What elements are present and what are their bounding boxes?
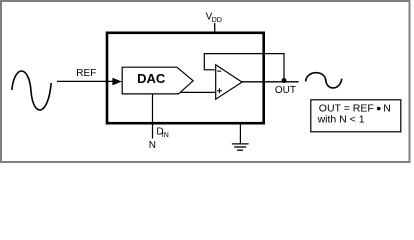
DAC block xyxy=(122,67,193,94)
label VDD xyxy=(206,12,222,24)
wire REF input xyxy=(57,78,122,86)
VDD pin lead xyxy=(214,23,216,33)
svg-text:DD: DD xyxy=(212,15,222,24)
svg-text:with N < 1: with N < 1 xyxy=(317,113,365,125)
DIN pin lead xyxy=(152,94,154,139)
op-amp buffer xyxy=(216,65,242,99)
formula note box xyxy=(311,100,401,132)
svg-text:DAC: DAC xyxy=(137,71,166,86)
AC output waveform (sine symbol) xyxy=(306,73,342,88)
svg-text:OUT: OUT xyxy=(275,85,296,96)
label DIN xyxy=(156,127,168,139)
svg-text:N: N xyxy=(149,140,156,151)
feedback wire (output to inverting input) xyxy=(204,54,284,79)
ground (GND pin) xyxy=(232,124,249,151)
wire DAC output to op-amp noninverting input xyxy=(181,91,215,93)
AC input source (sine symbol) xyxy=(12,71,51,110)
label REF xyxy=(76,68,96,79)
label OUT xyxy=(275,85,296,96)
IC package box xyxy=(107,33,264,123)
svg-text:IN: IN xyxy=(162,130,169,139)
label N xyxy=(149,140,156,151)
junction dot at OUT node xyxy=(282,78,287,83)
svg-text:N: N xyxy=(383,103,391,115)
output wire xyxy=(242,81,299,83)
svg-text:REF: REF xyxy=(76,68,96,79)
